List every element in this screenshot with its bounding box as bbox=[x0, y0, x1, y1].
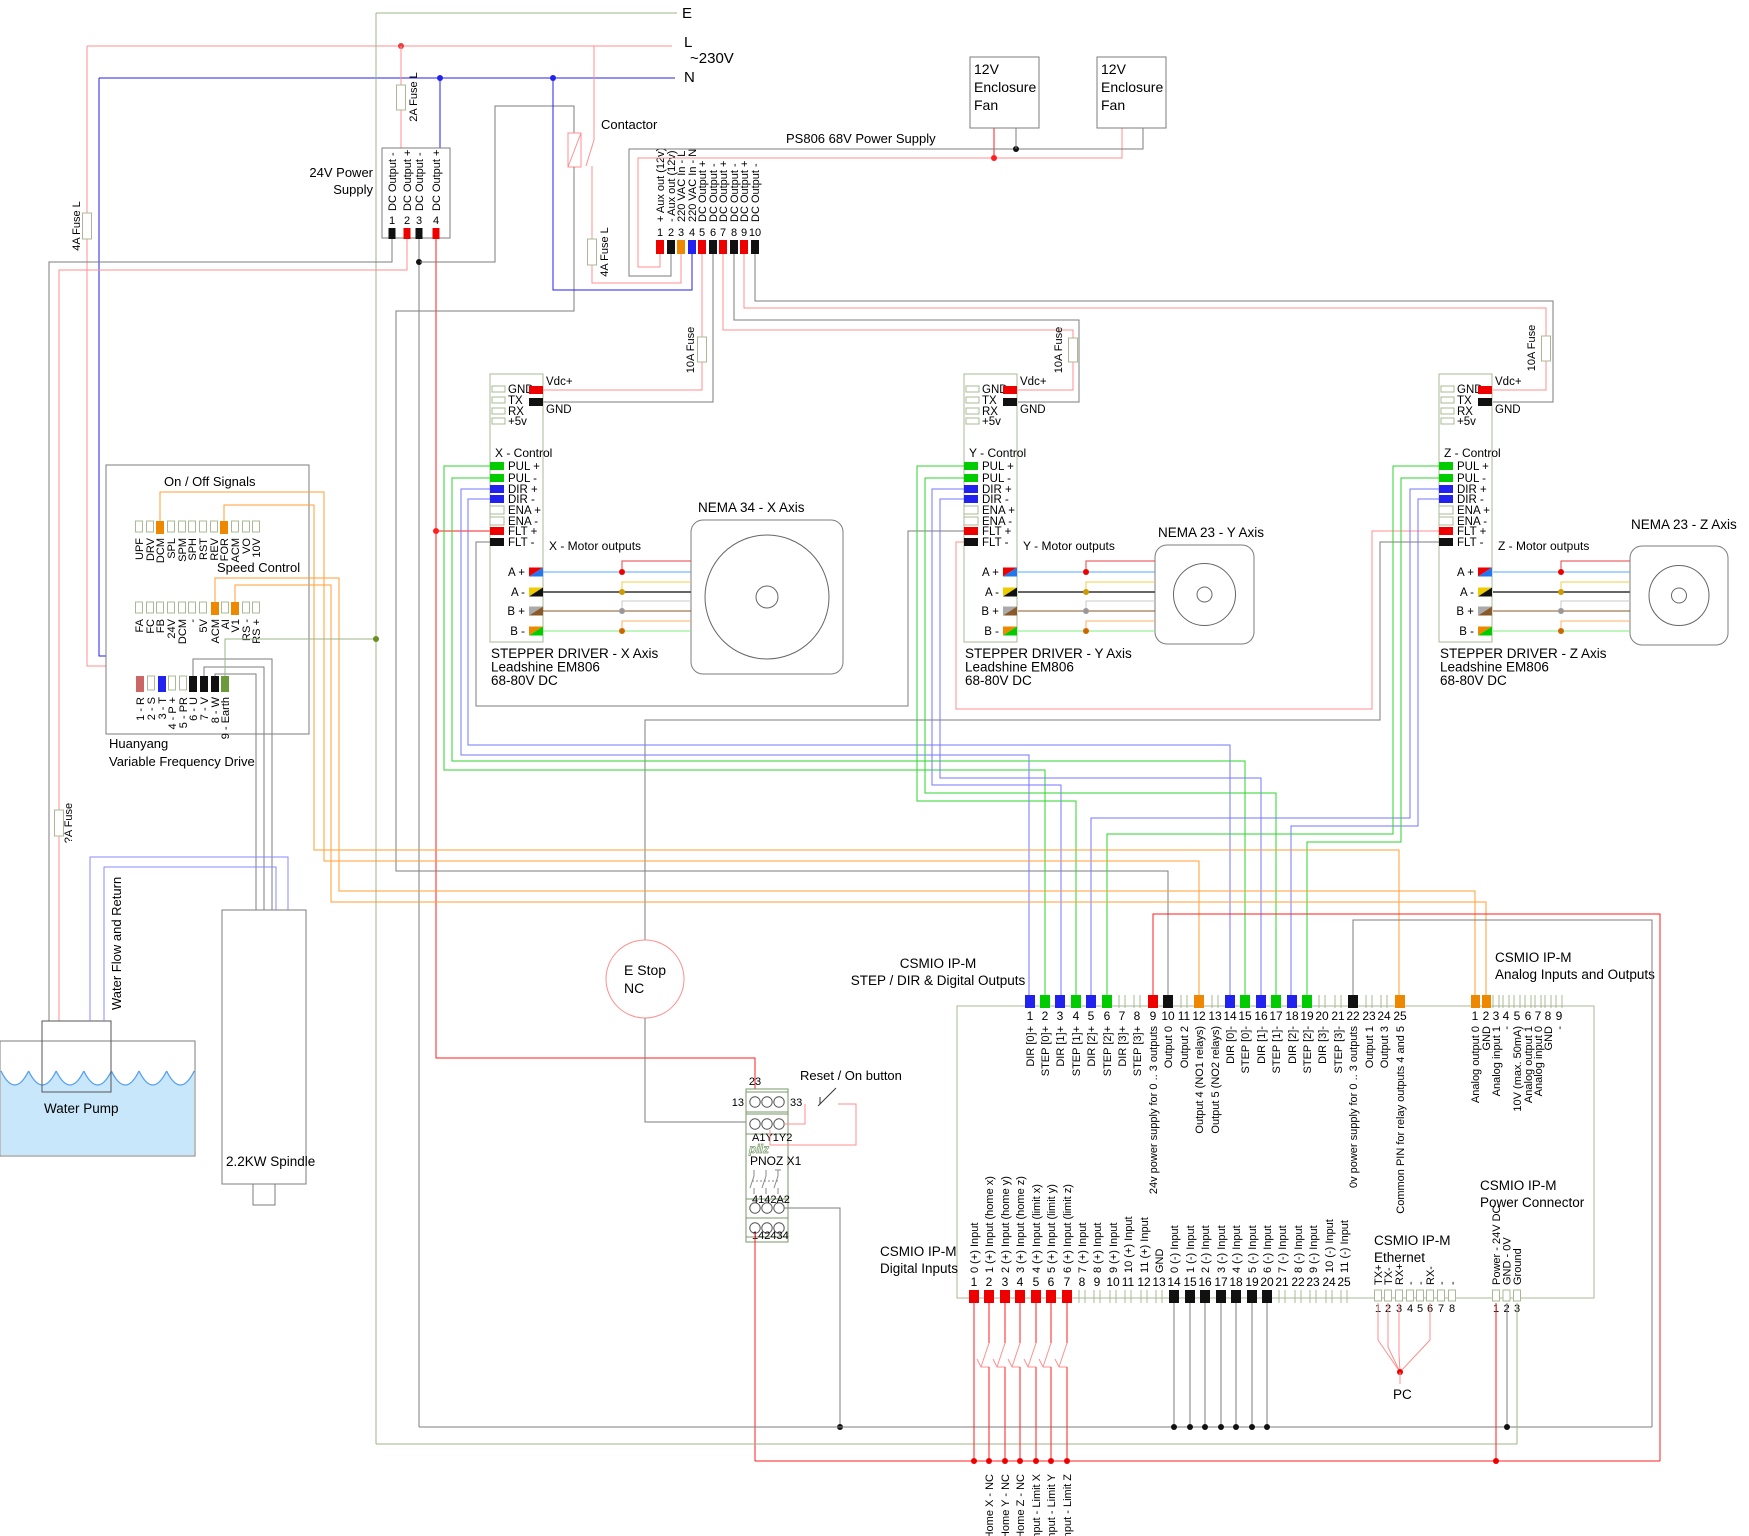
terminal Y Vdc+ pad bbox=[1003, 386, 1017, 394]
svg-text:2: 2 bbox=[404, 215, 410, 227]
svg-text:Vdc+: Vdc+ bbox=[1495, 376, 1522, 388]
wire VFD earth to E line bbox=[225, 639, 376, 676]
svg-text:3: 3 bbox=[678, 227, 684, 239]
terminal Y FLT + pad bbox=[964, 527, 978, 535]
svg-text:DC Output -: DC Output - bbox=[414, 152, 426, 211]
wire PS806 pin8 to Y GND bbox=[734, 254, 1079, 402]
svg-text:Home Y - NC: Home Y - NC bbox=[1000, 1474, 1012, 1536]
wire contactor output to Output0 pin bbox=[396, 167, 1168, 995]
wire Y PUL- to pin17 bbox=[925, 478, 1276, 995]
svg-text:2: 2 bbox=[986, 1275, 993, 1289]
svg-text:Y - Control: Y - Control bbox=[969, 446, 1026, 460]
svg-text:L: L bbox=[684, 34, 692, 51]
svg-text:STEP / DIR & Digital Outputs: STEP / DIR & Digital Outputs bbox=[851, 973, 1026, 988]
junction fan1 red bbox=[991, 155, 997, 161]
wire Z DIR- to pin18 bbox=[1291, 499, 1439, 995]
terminal Z A - pad bbox=[1478, 588, 1492, 597]
terminal CSMIO out pin 4 bbox=[1071, 995, 1081, 1008]
wire E rail bbox=[376, 12, 677, 14]
svg-text:DC Output +: DC Output + bbox=[431, 150, 443, 211]
terminal Z +5v pad bbox=[1441, 418, 1454, 424]
wire Y motor B+ brown bbox=[1018, 610, 1155, 612]
terminal Z DIR - pad bbox=[1439, 495, 1453, 503]
svg-text:7: 7 bbox=[720, 227, 726, 239]
svg-text:4: 4 bbox=[433, 215, 439, 227]
svg-text:24v power supply for 0 .. 3 ou: 24v power supply for 0 .. 3 outputs bbox=[1148, 1026, 1160, 1195]
svg-text:5: 5 bbox=[1514, 1009, 1521, 1023]
wire Y motor red bbox=[1086, 561, 1155, 572]
wire 24V+ pin2 to water pump bbox=[59, 239, 407, 810]
wire input pin 6 drop bbox=[1050, 1303, 1052, 1343]
wire input pin 1 drop bbox=[973, 1303, 975, 1461]
terminal X PUL + pad bbox=[490, 462, 504, 470]
terminal VFD 7 - V bbox=[200, 676, 208, 692]
wire fan1 black drop bbox=[1015, 128, 1017, 149]
wire L drop to VFD bbox=[86, 46, 88, 213]
svg-text:4 (+) Input (limit x): 4 (+) Input (limit x) bbox=[1031, 1184, 1043, 1273]
terminal 24V PSU pin3 pad bbox=[416, 228, 423, 239]
svg-text:A -: A - bbox=[1460, 587, 1474, 599]
svg-text:Water Pump: Water Pump bbox=[44, 1101, 119, 1116]
svg-text:10: 10 bbox=[1161, 1009, 1175, 1023]
svg-text:8: 8 bbox=[731, 227, 737, 239]
junction L-2A fuse bbox=[398, 43, 404, 49]
svg-text:17: 17 bbox=[1214, 1275, 1228, 1289]
svg-text:Z - Control: Z - Control bbox=[1444, 446, 1501, 460]
terminal VFD UPF bbox=[136, 521, 143, 532]
terminal X FLT + pad bbox=[490, 527, 504, 535]
terminal PS806 pin 2 bbox=[667, 240, 675, 254]
svg-text:Enclosure: Enclosure bbox=[974, 79, 1036, 95]
svg-text:CSMIO IP-M: CSMIO IP-M bbox=[900, 956, 977, 971]
terminal power pin 3 bbox=[1514, 1290, 1521, 1301]
svg-text:Home Z - NC: Home Z - NC bbox=[1015, 1474, 1027, 1536]
svg-text:N: N bbox=[684, 69, 695, 86]
terminal CSMIO out pin 16 bbox=[1256, 995, 1266, 1008]
svg-text:10 (-) Input: 10 (-) Input bbox=[1324, 1219, 1336, 1273]
wire Y motor A- grey bbox=[1018, 591, 1155, 593]
wire Z DIR+ to pin5 bbox=[1091, 489, 1439, 995]
wire Z motor red bbox=[1561, 561, 1630, 572]
terminal ethernet pin 8 bbox=[1449, 1290, 1456, 1301]
stepper driver UY box bbox=[964, 374, 1017, 642]
terminal VFD AI bbox=[222, 602, 229, 613]
svg-text:Digital Inputs: Digital Inputs bbox=[880, 1261, 958, 1276]
svg-text:68-80V DC: 68-80V DC bbox=[1440, 673, 1507, 688]
svg-text:17: 17 bbox=[1269, 1009, 1283, 1023]
svg-text:Common PIN for relay outputs 4: Common PIN for relay outputs 4 and 5 bbox=[1395, 1026, 1407, 1214]
svg-text:9 (+) Input: 9 (+) Input bbox=[1108, 1223, 1120, 1273]
svg-text:5: 5 bbox=[1033, 1275, 1040, 1289]
wire fuse to pump bbox=[58, 836, 60, 1021]
contactor K1 body bbox=[568, 133, 581, 167]
terminal VFD RST bbox=[200, 521, 207, 532]
terminal CSMIO input pin 10 bbox=[1109, 1290, 1111, 1303]
svg-text:9: 9 bbox=[1556, 1009, 1563, 1023]
wire contactor to 4A fuse bbox=[591, 166, 593, 239]
bus 0v black bottom bbox=[419, 1426, 1652, 1428]
svg-text:9 (-) Input: 9 (-) Input bbox=[1308, 1225, 1320, 1273]
terminal VFD FOR bbox=[220, 521, 228, 534]
fan FAN2 12V Enclosure Fan bbox=[1097, 57, 1166, 128]
svg-text:23: 23 bbox=[1306, 1275, 1320, 1289]
terminal X PUL - pad bbox=[490, 474, 504, 482]
wire X motor yellow bbox=[622, 582, 691, 592]
terminal analog pin 5 bbox=[1513, 995, 1515, 1008]
svg-text:25: 25 bbox=[1393, 1009, 1407, 1023]
svg-text:-: - bbox=[1447, 1281, 1459, 1285]
svg-text:PC: PC bbox=[1393, 1387, 1412, 1402]
svg-text:NC: NC bbox=[624, 980, 644, 996]
svg-text:On / Off Signals: On / Off Signals bbox=[164, 474, 256, 489]
terminal VFD 10V bbox=[253, 521, 260, 532]
terminal X GND pad bbox=[492, 386, 505, 392]
terminal CSMIO input pin 13 bbox=[1155, 1290, 1157, 1303]
svg-text:A -: A - bbox=[985, 587, 999, 599]
bus earth green bottom bbox=[376, 1443, 1517, 1445]
terminal CSMIO input pin 19 bbox=[1247, 1290, 1257, 1303]
svg-text:7: 7 bbox=[1438, 1303, 1444, 1315]
wire VFD FOR to pin25 bbox=[224, 505, 1399, 995]
svg-text:PNOZ X1: PNOZ X1 bbox=[750, 1154, 802, 1168]
svg-text:20: 20 bbox=[1315, 1009, 1329, 1023]
svg-text:1: 1 bbox=[971, 1275, 978, 1289]
svg-text:1 (+) Input (home x): 1 (+) Input (home x) bbox=[984, 1176, 996, 1273]
svg-text:22: 22 bbox=[1346, 1009, 1360, 1023]
terminal CSMIO out pin 18 bbox=[1287, 995, 1297, 1008]
wire X FLT- to Y FLT+ chain bbox=[476, 531, 964, 706]
svg-text:Analog Inputs and Outputs: Analog Inputs and Outputs bbox=[1495, 967, 1655, 982]
terminal CSMIO input pin 6 bbox=[1046, 1290, 1056, 1303]
wire input pin 5 drop bbox=[1035, 1303, 1037, 1343]
svg-text:Fan: Fan bbox=[974, 97, 998, 113]
wire input pin 18 drop bbox=[1235, 1303, 1237, 1427]
svg-text:Output 5 (NO2 relays): Output 5 (NO2 relays) bbox=[1210, 1026, 1222, 1134]
switch reset button bbox=[819, 1097, 821, 1104]
wire PNOZ A2 to 0v bus bbox=[784, 1208, 840, 1427]
svg-text:2: 2 bbox=[1042, 1009, 1049, 1023]
terminal CSMIO out pin 22 bbox=[1348, 995, 1358, 1008]
terminal VFD - bbox=[189, 602, 196, 613]
terminal CSMIO out pin 19 bbox=[1302, 995, 1312, 1008]
terminal analog pin 8 bbox=[1544, 995, 1546, 1008]
terminal Z FLT + pad bbox=[1439, 527, 1453, 535]
svg-text:+5v: +5v bbox=[508, 416, 527, 428]
terminal Z GND pad bbox=[1441, 386, 1454, 392]
svg-text:Output 2: Output 2 bbox=[1179, 1026, 1191, 1068]
wire input pin 7 drop bbox=[1066, 1303, 1068, 1343]
wire power pin1 drop bbox=[1495, 1303, 1497, 1461]
wire input pin 20 drop bbox=[1266, 1303, 1268, 1427]
svg-text:9 - Earth: 9 - Earth bbox=[220, 697, 232, 739]
svg-text:5: 5 bbox=[699, 227, 705, 239]
svg-text:8: 8 bbox=[1134, 1009, 1141, 1023]
svg-text:DIR [1]+: DIR [1]+ bbox=[1055, 1026, 1067, 1067]
svg-text:5 (-) Input: 5 (-) Input bbox=[1247, 1225, 1259, 1273]
terminal Y GND pad bbox=[966, 386, 979, 392]
svg-text:21: 21 bbox=[1275, 1275, 1289, 1289]
svg-text:DIR [1]-: DIR [1]- bbox=[1256, 1026, 1268, 1064]
wire X motor white bbox=[622, 601, 691, 611]
svg-text:1: 1 bbox=[657, 227, 663, 239]
terminal CSMIO out pin 11 bbox=[1180, 995, 1182, 1008]
bus 24v red bottom bbox=[755, 1460, 1660, 1462]
wire VFD DCM to Output4 pin12 bbox=[160, 492, 1199, 995]
svg-text:24: 24 bbox=[1377, 1009, 1391, 1023]
terminal ethernet pin 6 bbox=[1427, 1290, 1434, 1301]
terminal CSMIO out pin 14 bbox=[1225, 995, 1235, 1008]
wire X motor B- green bbox=[543, 630, 691, 632]
wire Y DIR- to pin16 bbox=[940, 499, 1261, 995]
svg-text:3 (-) Input: 3 (-) Input bbox=[1216, 1225, 1228, 1273]
wire X motor orange bbox=[622, 621, 691, 631]
svg-text:6 (+) Input (limit z): 6 (+) Input (limit z) bbox=[1062, 1184, 1074, 1273]
svg-text:1 (-) Input: 1 (-) Input bbox=[1185, 1225, 1197, 1273]
stepper driver UZ box bbox=[1439, 374, 1492, 642]
svg-text:4: 4 bbox=[1503, 1009, 1510, 1023]
water pump box bbox=[42, 1021, 111, 1092]
svg-text:B +: B + bbox=[981, 606, 999, 618]
terminal PS806 pin 7 bbox=[719, 240, 727, 254]
svg-text:12: 12 bbox=[1192, 1009, 1206, 1023]
terminal CSMIO out pin 1 bbox=[1025, 995, 1035, 1008]
svg-text:10V: 10V bbox=[251, 537, 263, 557]
wire VFD U to spindle bbox=[193, 659, 272, 910]
wire fan1 red drop bbox=[993, 128, 995, 158]
terminal CSMIO out pin 5 bbox=[1086, 995, 1096, 1008]
terminal CSMIO input pin 7 bbox=[1062, 1290, 1072, 1303]
fuse F4 4A Fuse L contactor bbox=[588, 239, 597, 265]
svg-text:Input - Limit X: Input - Limit X bbox=[1031, 1473, 1043, 1536]
motor NEMA 23 - Y Axis bbox=[1155, 545, 1254, 644]
svg-text:2.2KW Spindle: 2.2KW Spindle bbox=[226, 1154, 315, 1169]
terminal CSMIO out pin 12 bbox=[1194, 995, 1204, 1008]
svg-text:11 (+) Input: 11 (+) Input bbox=[1139, 1217, 1151, 1273]
terminal 24V PSU pin2 pad bbox=[404, 228, 411, 239]
pipe water flow out bbox=[90, 857, 288, 1021]
terminal CSMIO out pin 24 bbox=[1380, 995, 1382, 1008]
svg-text:4: 4 bbox=[1407, 1303, 1413, 1315]
terminal CSMIO input pin 8 bbox=[1078, 1290, 1080, 1303]
terminal VFD 1 - R bbox=[136, 676, 144, 692]
svg-text:2: 2 bbox=[668, 227, 674, 239]
wire PS806 pin5 to 10A fuse X bbox=[701, 254, 703, 337]
svg-text:NEMA 34 - X Axis: NEMA 34 - X Axis bbox=[698, 500, 805, 515]
svg-text:3: 3 bbox=[1002, 1275, 1009, 1289]
junction fan1 black bbox=[1013, 146, 1019, 152]
wire fuse X to X Vdc+ bbox=[543, 362, 702, 390]
fan FAN1 12V Enclosure Fan bbox=[970, 57, 1039, 128]
terminal PS806 pin 8 bbox=[730, 240, 738, 254]
wire input pin 15 drop bbox=[1189, 1303, 1191, 1427]
terminal CSMIO out pin 17 bbox=[1271, 995, 1281, 1008]
terminal Z Vdc+ pad bbox=[1478, 386, 1492, 394]
wire input pin 16 drop bbox=[1204, 1303, 1206, 1427]
svg-text:6: 6 bbox=[1104, 1009, 1111, 1023]
terminal power pin 1 bbox=[1493, 1290, 1500, 1301]
svg-text:2: 2 bbox=[1483, 1009, 1490, 1023]
junction earth bbox=[373, 636, 379, 642]
terminal VFD V1 bbox=[231, 602, 239, 615]
wire N to 24V PSU bbox=[439, 78, 441, 148]
terminal Y B + pad bbox=[1003, 607, 1017, 616]
svg-text:1: 1 bbox=[1027, 1009, 1034, 1023]
svg-text:6: 6 bbox=[710, 227, 716, 239]
terminal VFD FB bbox=[157, 602, 164, 613]
wire X PUL- to pin15 bbox=[452, 478, 1245, 995]
wire VFD V1 to analog pin2 bbox=[235, 585, 1486, 995]
svg-text:DC Output +: DC Output + bbox=[402, 150, 414, 211]
terminal PS806 pin 9 bbox=[740, 240, 748, 254]
terminal CSMIO out pin 6 bbox=[1102, 995, 1112, 1008]
svg-text:?A Fuse: ?A Fuse bbox=[63, 803, 75, 843]
svg-text:19: 19 bbox=[1245, 1275, 1259, 1289]
svg-text:5V: 5V bbox=[198, 618, 210, 632]
wire PS806 pin6 to X GND bbox=[543, 254, 713, 402]
svg-text:5: 5 bbox=[1088, 1009, 1095, 1023]
svg-text:68-80V DC: 68-80V DC bbox=[491, 673, 558, 688]
terminal Y TX pad bbox=[966, 397, 979, 403]
svg-text:6 (-) Input: 6 (-) Input bbox=[1262, 1225, 1274, 1273]
terminal PS806 pin 6 bbox=[709, 240, 717, 254]
svg-text:DIR [3]-: DIR [3]- bbox=[1317, 1026, 1329, 1064]
svg-text:19: 19 bbox=[1300, 1009, 1314, 1023]
svg-text:13: 13 bbox=[1208, 1009, 1222, 1023]
svg-text:+5v: +5v bbox=[1457, 416, 1476, 428]
wire 2A fuse to 24V PSU bbox=[400, 110, 402, 148]
wire VFD W to spindle bbox=[215, 674, 256, 910]
terminal X TX pad bbox=[492, 397, 505, 403]
wire Z motor A+ blue bbox=[1493, 571, 1630, 573]
svg-text:11 (-) Input: 11 (-) Input bbox=[1339, 1220, 1351, 1273]
svg-text:10A Fuse: 10A Fuse bbox=[685, 327, 697, 373]
terminal VFD 4 - P + bbox=[169, 676, 176, 690]
terminal VFD DCM bbox=[156, 521, 164, 534]
terminal Z TX pad bbox=[1441, 397, 1454, 403]
terminal analog pin 3 bbox=[1492, 995, 1494, 1008]
svg-text:3: 3 bbox=[416, 215, 422, 227]
wire ethernet to PC bbox=[1378, 1303, 1400, 1372]
svg-text:CSMIO IP-M: CSMIO IP-M bbox=[880, 1244, 957, 1259]
terminal Y PUL + pad bbox=[964, 462, 978, 470]
svg-text:8 (+) Input: 8 (+) Input bbox=[1092, 1223, 1104, 1273]
terminal VFD 2 - S bbox=[148, 676, 155, 690]
terminal ethernet pin 7 bbox=[1438, 1290, 1445, 1301]
terminal X B + pad bbox=[529, 607, 543, 616]
junction N-24V PSU bbox=[437, 75, 443, 81]
svg-text:X - Control: X - Control bbox=[495, 446, 552, 460]
wire contactor switch L side bbox=[593, 46, 595, 140]
junction 0v at pin3 bbox=[416, 259, 422, 265]
svg-text:16: 16 bbox=[1254, 1009, 1268, 1023]
svg-text:B -: B - bbox=[1459, 626, 1474, 638]
terminal VFD SPM bbox=[179, 521, 186, 532]
wire PS806 pin7 to 10A fuse Y bbox=[723, 254, 1073, 338]
wire X FLT+ stub bbox=[436, 530, 490, 532]
wire PS806 pin9 to 10A fuse Z bbox=[744, 254, 1546, 336]
terminal ethernet pin 2 bbox=[1385, 1290, 1392, 1301]
svg-text:Reset / On button: Reset / On button bbox=[800, 1068, 902, 1083]
terminal power pin 2 bbox=[1503, 1290, 1510, 1301]
terminal VFD DRV bbox=[147, 521, 154, 532]
svg-text:STEP [2]+: STEP [2]+ bbox=[1102, 1026, 1114, 1076]
junction A2 bus bbox=[837, 1424, 843, 1430]
wire Y motor white bbox=[1086, 601, 1155, 611]
terminal CSMIO out pin 25 bbox=[1395, 995, 1405, 1008]
svg-text:23: 23 bbox=[1362, 1009, 1376, 1023]
svg-text:RS +: RS + bbox=[251, 619, 263, 644]
terminal CSMIO out pin 10 bbox=[1163, 995, 1173, 1008]
terminal Y DIR - pad bbox=[964, 495, 978, 503]
svg-text:8 (-) Input: 8 (-) Input bbox=[1293, 1225, 1305, 1273]
terminal VFD FA bbox=[136, 602, 143, 613]
svg-text:DC Output -: DC Output - bbox=[387, 152, 399, 211]
wire 24V- pin3 to 0v bus bbox=[418, 239, 420, 1427]
relay contacts symbols bbox=[753, 1170, 755, 1176]
VFD Huanyang box bbox=[106, 465, 309, 734]
wire X motor A- grey bbox=[543, 591, 691, 593]
fuse F2 2A Fuse L bbox=[397, 85, 406, 110]
terminal Y A - pad bbox=[1003, 588, 1017, 597]
svg-text:B +: B + bbox=[507, 606, 525, 618]
terminal CSMIO input pin 15 bbox=[1185, 1290, 1195, 1303]
terminal analog pin 7 bbox=[1534, 995, 1536, 1008]
svg-text:-: - bbox=[1554, 1026, 1566, 1030]
terminal VFD 5V bbox=[200, 602, 207, 613]
svg-text:STEP [0]-: STEP [0]- bbox=[1240, 1026, 1252, 1074]
svg-text:Ethernet: Ethernet bbox=[1374, 1250, 1425, 1265]
svg-text:20: 20 bbox=[1260, 1275, 1274, 1289]
svg-text:PUL +: PUL + bbox=[508, 461, 540, 473]
svg-text:3: 3 bbox=[1057, 1009, 1064, 1023]
terminal VFD RS + bbox=[253, 602, 260, 613]
svg-text:Input - Limit Z: Input - Limit Z bbox=[1062, 1474, 1074, 1536]
spindle 2.2KW box bbox=[222, 910, 306, 1184]
svg-text:0v power supply for 0 .. 3 out: 0v power supply for 0 .. 3 outputs bbox=[1348, 1026, 1360, 1189]
wire Y motor A+ blue bbox=[1018, 571, 1155, 573]
wire contactor coil top bar bbox=[420, 106, 574, 262]
terminal CSMIO input pin 14 bbox=[1169, 1290, 1179, 1303]
terminal CSMIO out pin 9 bbox=[1148, 995, 1158, 1008]
terminal PS806 pin 4 bbox=[688, 240, 696, 254]
svg-text:NEMA 23 - Y Axis: NEMA 23 - Y Axis bbox=[1158, 525, 1264, 540]
terminal Z A + pad bbox=[1478, 568, 1492, 577]
wire Z motor yellow bbox=[1561, 582, 1630, 592]
terminal VFD SPH bbox=[189, 521, 196, 532]
svg-text:15: 15 bbox=[1183, 1275, 1197, 1289]
svg-text:22: 22 bbox=[1291, 1275, 1305, 1289]
svg-text:18: 18 bbox=[1229, 1275, 1243, 1289]
svg-text:GND: GND bbox=[546, 404, 572, 416]
wire L rail bbox=[87, 45, 672, 47]
svg-text:9: 9 bbox=[1150, 1009, 1157, 1023]
svg-text:14: 14 bbox=[1167, 1275, 1181, 1289]
wire X DIR- to pin14 bbox=[468, 499, 1230, 995]
terminal analog pin 2 bbox=[1482, 995, 1491, 1008]
wire VFD V to spindle bbox=[204, 667, 264, 910]
terminal Z FLT - pad bbox=[1439, 538, 1453, 546]
terminal CSMIO out pin 15 bbox=[1240, 995, 1250, 1008]
terminal CSMIO input pin 21 bbox=[1278, 1290, 1280, 1303]
wire input pin 2 drop bbox=[988, 1303, 990, 1343]
wire input pin 19 drop bbox=[1251, 1303, 1253, 1427]
terminal CSMIO input pin 2 bbox=[984, 1290, 994, 1303]
terminal VFD REV bbox=[211, 521, 218, 532]
svg-text:Z - Motor outputs: Z - Motor outputs bbox=[1498, 539, 1589, 553]
svg-text:10A Fuse: 10A Fuse bbox=[1526, 325, 1538, 371]
svg-text:Output 1: Output 1 bbox=[1364, 1026, 1376, 1068]
wire Y motor B- green bbox=[1018, 630, 1155, 632]
